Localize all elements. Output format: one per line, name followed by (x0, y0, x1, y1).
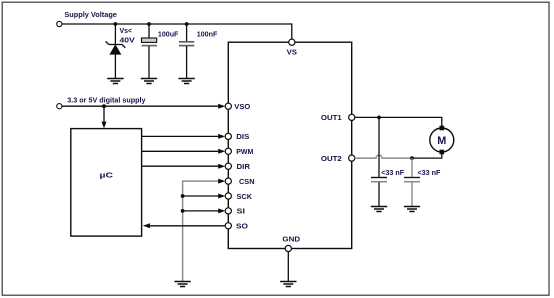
capacitor C2 100nF (179, 24, 194, 78)
svg-text:Vs<: Vs< (120, 26, 133, 35)
wire GND (287, 252, 289, 282)
terminal digital supply (57, 104, 62, 109)
pin VS (289, 39, 295, 45)
svg-text:DIR: DIR (237, 162, 251, 171)
pin OUT2 (349, 155, 355, 161)
pin OUT1 (349, 114, 355, 120)
wire OUT1 to motor (355, 117, 442, 126)
node zener tap (114, 22, 118, 26)
pin VSO (225, 103, 231, 109)
svg-text:SCK: SCK (237, 192, 253, 201)
node SI tap (181, 209, 185, 213)
svg-text:3.3 or 5V digital supply: 3.3 or 5V digital supply (67, 95, 146, 104)
ground (280, 282, 296, 287)
node uC supply tap (102, 104, 106, 108)
wire OUT2 (gray) with hop (355, 155, 412, 158)
pin CSN (225, 178, 231, 184)
pin DIS (225, 133, 231, 139)
wire uC supply (103, 106, 105, 122)
capacitor C1 100uF (142, 24, 158, 78)
svg-text:SO: SO (236, 222, 248, 231)
motor M (430, 128, 454, 152)
zener diode D1 (106, 24, 126, 78)
IC U1 (228, 42, 351, 248)
wire DIS (142, 135, 219, 137)
ground (141, 79, 157, 84)
svg-text:M: M (437, 135, 446, 147)
node C2 tap (185, 22, 189, 26)
pin SI (225, 208, 231, 214)
svg-text:DIS: DIS (236, 132, 249, 141)
svg-text:<33 nF: <33 nF (381, 168, 404, 177)
ground (174, 282, 190, 287)
capacitor C3 <33nF (371, 117, 387, 206)
wire SI (183, 210, 219, 212)
pin SO (225, 223, 231, 229)
svg-text:VSO: VSO (234, 102, 250, 111)
wire PWM (142, 150, 219, 152)
svg-text:OUT2: OUT2 (321, 154, 342, 163)
ground (404, 207, 420, 212)
svg-text:CSN: CSN (239, 177, 255, 186)
svg-text:<33 nF: <33 nF (418, 168, 441, 177)
node OUT1 snubber tap (377, 116, 381, 120)
ground (107, 79, 123, 84)
svg-text:VS: VS (287, 47, 297, 56)
node SCK tap (181, 194, 185, 198)
wire supply rail (62, 24, 292, 39)
wire VSO (62, 105, 219, 107)
svg-text:40V: 40V (120, 36, 135, 45)
wire DIR (142, 165, 219, 167)
pin SCK (225, 193, 231, 199)
svg-text:GND: GND (282, 234, 300, 243)
svg-text:100nF: 100nF (197, 30, 218, 39)
svg-text:OUT1: OUT1 (321, 113, 342, 122)
node C1 tap (147, 22, 151, 26)
ground (178, 79, 194, 84)
wire SCK (183, 195, 219, 197)
pin GND (285, 245, 291, 251)
wire OUT2 to motor (412, 154, 442, 158)
wire CSN pulldown (gray) (183, 181, 219, 281)
terminal supply input (57, 21, 62, 26)
microcontroller uC (71, 129, 142, 237)
capacitor C4 <33nF (gray) (404, 158, 420, 206)
ground (371, 207, 387, 212)
svg-text:µC: µC (100, 171, 114, 180)
svg-text:Supply Voltage: Supply Voltage (64, 10, 117, 19)
wire SO (150, 225, 225, 227)
pin DIR (225, 163, 231, 169)
node OUT2 snubber tap (410, 156, 414, 160)
pin PWM (225, 148, 231, 154)
svg-text:PWM: PWM (236, 147, 253, 156)
svg-text:SI: SI (237, 207, 246, 216)
svg-text:100uF: 100uF (158, 30, 179, 39)
